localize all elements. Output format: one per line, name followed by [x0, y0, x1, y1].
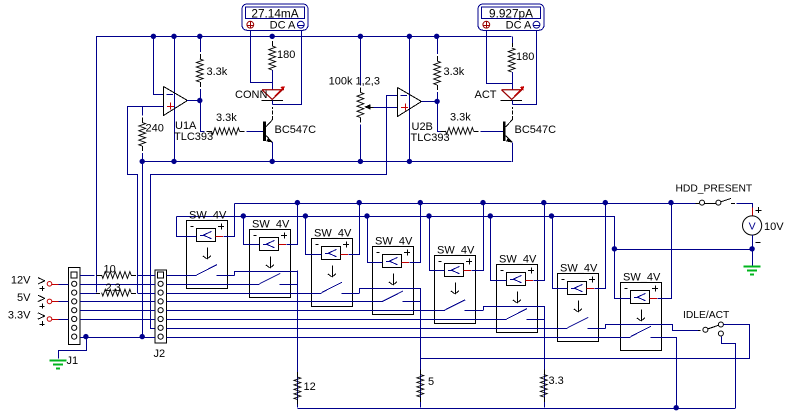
- ground J1: [50, 361, 67, 369]
- wire SW7 minus: [553, 217, 568, 289]
- svg-text:ACT: ACT: [475, 89, 497, 101]
- svg-text:SW_4V: SW_4V: [314, 228, 352, 240]
- wire 3.3ohm feed: [544, 306, 546, 408]
- wire SW5 plus: [472, 204, 484, 271]
- label 240: [146, 123, 164, 135]
- node botrail/link1: [171, 159, 176, 164]
- svg-text:10: 10: [104, 264, 116, 276]
- label BC547C Q1: [275, 124, 317, 136]
- switch IDLE/ACT: [698, 322, 723, 336]
- wire SW8 minus extension: [614, 216, 616, 297]
- wire pot wiper to U2B+: [374, 107, 398, 109]
- svg-text:240: 240: [146, 123, 164, 135]
- wire LED2 cathode to Q2 collector: [512, 100, 514, 104]
- label SW_4V 6: [499, 254, 537, 266]
- wire bus pin8: [166, 337, 630, 339]
- resistor R180 ch2: [508, 43, 515, 90]
- wire source - lead: [752, 235, 754, 265]
- resistor R3.3k base ch2: [437, 128, 503, 135]
- ammeter XMM1: [242, 4, 308, 32]
- switch blade SW6: [507, 309, 528, 319]
- label TLC393 U2B: [411, 132, 450, 144]
- svg-text:SW_4V: SW_4V: [560, 263, 598, 275]
- wire bottom rail: [142, 161, 511, 163]
- wire top supply rail: [96, 36, 512, 38]
- wire Q1 emitter: [272, 142, 274, 161]
- label HDD_PRESENT: [676, 184, 753, 195]
- label 2.3: [106, 282, 121, 294]
- switch blade SW5: [445, 300, 466, 310]
- node SW7 plus on feeder A: [603, 200, 608, 205]
- wire SW3 minus: [306, 217, 322, 255]
- switch module SW1 SW_4V: [187, 221, 228, 289]
- connector J2: [155, 270, 167, 343]
- label SW_4V 3: [314, 228, 352, 240]
- wire SW1 plus stub: [215, 236, 223, 238]
- wire bus pin4: [166, 301, 383, 303]
- wire U1A output: [187, 100, 200, 102]
- label J1: [67, 355, 79, 367]
- switch blade SW4: [383, 291, 404, 301]
- wire SW4 output stub: [402, 301, 420, 303]
- op-amp U1A: [164, 87, 188, 116]
- wire meter2 - lead: [513, 31, 537, 105]
- svg-text:3.3k: 3.3k: [207, 66, 228, 78]
- node rail/U1A- tap: [151, 34, 156, 39]
- svg-text:180: 180: [277, 49, 295, 61]
- LED ACT: [501, 86, 525, 100]
- wire J1 pin4 to J2: [80, 301, 155, 303]
- node U2B output: [434, 99, 439, 104]
- label BC547C Q2: [515, 124, 557, 136]
- wire Q2 emitter: [512, 143, 513, 162]
- wire SW8 plus stub: [649, 298, 657, 300]
- label 3.3k pullup ch2: [444, 66, 465, 78]
- switch HDD_PRESENT: [695, 198, 736, 205]
- wire meter2 + lead: [487, 31, 513, 84]
- wire SW4 plus: [410, 204, 421, 263]
- resistor R3.3k pullup ch2: [434, 36, 441, 101]
- wire U1A noninverting input: [128, 107, 164, 294]
- wire SW5 plus stub: [463, 270, 471, 272]
- svg-text:J1: J1: [67, 355, 79, 367]
- switch module SW6 SW_4V: [497, 265, 538, 333]
- svg-text:IDLE/ACT: IDLE/ACT: [683, 310, 730, 321]
- svg-text:3.3k: 3.3k: [450, 112, 471, 124]
- label 10: [104, 264, 116, 276]
- wire 3.3V to J1: [59, 319, 69, 321]
- wire left supply drop: [96, 36, 98, 292]
- wire output to base resistor ch1: [201, 101, 204, 132]
- label SW_4V 2: [252, 219, 290, 231]
- potentiometer 100k: [357, 36, 374, 161]
- wire rail-to-rail link 2: [409, 36, 411, 161]
- svg-text:BC547C: BC547C: [515, 124, 557, 136]
- node rail/pass2 tap: [407, 34, 412, 39]
- node SW8 output on ground rail: [674, 405, 679, 410]
- label 180 ch2: [516, 51, 534, 63]
- wire SW3-SW4 jog: [360, 289, 421, 311]
- ground source: [744, 267, 761, 275]
- switch blade SW3: [322, 282, 343, 292]
- svg-text:12V: 12V: [11, 274, 31, 286]
- node SW6 plus on feeder A: [541, 200, 546, 205]
- node SW2 minus on feeder B: [241, 213, 246, 218]
- wire IDLE/ACT NC branch: [722, 337, 736, 409]
- op-amp U2B: [398, 88, 422, 117]
- port 5V: [17, 292, 59, 309]
- svg-text:5: 5: [428, 376, 434, 388]
- node rail/R 3.3k tap: [197, 34, 202, 39]
- node botrail/Q1e: [270, 159, 275, 164]
- svg-text:DC A: DC A: [506, 20, 532, 32]
- svg-text:10V: 10V: [764, 221, 784, 233]
- svg-text:3.3k: 3.3k: [444, 66, 465, 78]
- switch blade SW7: [568, 317, 589, 327]
- switch blade SW8: [631, 326, 652, 336]
- node source minus: [749, 246, 754, 251]
- switch blade SW1: [197, 265, 218, 275]
- node SW2 plus on feeder A: [295, 200, 300, 205]
- connector J1: [69, 268, 81, 345]
- svg-text:BC547C: BC547C: [275, 124, 317, 136]
- wire 5ohm feed: [420, 288, 422, 407]
- label 5: [428, 376, 434, 388]
- wire J1 pin8 to J2: [80, 337, 155, 339]
- resistor R3.3k pullup ch1: [196, 36, 203, 100]
- svg-text:3.3V: 3.3V: [8, 310, 31, 322]
- label ACT: [475, 89, 497, 101]
- label TLC393 U1A: [174, 131, 213, 143]
- wire SW8 output stub: [650, 337, 671, 339]
- label SW_4V 4: [375, 236, 413, 248]
- svg-text:SW_4V: SW_4V: [252, 219, 290, 231]
- wire control feeder A: [234, 203, 695, 205]
- node J1 pin8 drop: [140, 334, 145, 339]
- wire 10V return: [614, 249, 752, 251]
- wire J1 pin3 stub: [80, 293, 96, 295]
- wire 12V to J1: [59, 284, 69, 286]
- switch module SW2 SW_4V: [250, 230, 291, 298]
- wire U2B inverting stub: [386, 95, 397, 97]
- wire SW6 output stub: [526, 319, 543, 321]
- switch module SW7 SW_4V: [558, 274, 599, 342]
- wire SW5-SW6 jog: [484, 307, 545, 329]
- label CONN: [235, 89, 267, 101]
- label 12: [304, 381, 316, 393]
- wire LED2 anode link: [512, 72, 514, 90]
- node rail/pass tap: [171, 34, 176, 39]
- wire SW7 plus stub: [586, 288, 594, 290]
- wire bottom ground rail: [297, 408, 735, 410]
- node J1 pin8 ground tap: [83, 334, 88, 339]
- switch module SW5 SW_4V: [435, 256, 476, 324]
- resistor R180 ch1: [269, 36, 276, 90]
- node rail/R 3.3k-2 tap: [434, 34, 439, 39]
- wire control feeder B: [176, 216, 614, 218]
- wire SW1 minus: [177, 217, 197, 237]
- resistor R12: [294, 293, 301, 408]
- wire rail-to-rail link 1: [174, 36, 176, 161]
- svg-text:12: 12: [304, 381, 316, 393]
- svg-text:5V: 5V: [17, 292, 31, 304]
- wire LED1 cathode to Q1 collector: [272, 100, 274, 104]
- label 3.3k base ch1: [216, 112, 237, 124]
- wire SW2 output stub: [279, 284, 297, 286]
- label IDLE/ACT: [683, 310, 730, 321]
- label SW_4V 8: [623, 272, 661, 284]
- wire SW7 output stub: [587, 328, 605, 330]
- port 3.3V: [8, 310, 59, 327]
- wire J1 pin5 to J2: [80, 310, 155, 312]
- svg-text:SW_4V: SW_4V: [375, 236, 413, 248]
- resistor R5: [417, 310, 424, 408]
- node U1A output: [197, 98, 202, 103]
- node SW3 minus on feeder B: [303, 213, 308, 218]
- wire SW6 minus: [491, 217, 507, 281]
- svg-text:27.14mA: 27.14mA: [251, 7, 298, 21]
- wire SW6 plus stub: [525, 280, 533, 282]
- port 12V: [11, 274, 59, 291]
- wire SW1 plus: [224, 204, 235, 237]
- node SW3 plus on feeder A: [357, 200, 362, 205]
- ammeter XMM2: [478, 4, 544, 32]
- node SW8 plus on feeder A: [668, 200, 673, 205]
- resistor R3.3k base ch1: [200, 128, 264, 135]
- wire J1 pin2 to J2: [80, 284, 155, 286]
- svg-text:3.3: 3.3: [549, 375, 564, 387]
- wire rail into R180 ch2: [512, 36, 514, 43]
- wire bus pin6: [166, 319, 506, 321]
- wire bus pin2: [166, 284, 259, 286]
- svg-text:180: 180: [516, 51, 534, 63]
- wire SW8 plus: [658, 204, 672, 299]
- wire meter1 - lead: [273, 31, 302, 105]
- wire SW4 plus stub: [401, 262, 409, 264]
- svg-text:V: V: [749, 221, 756, 233]
- wire 12ohm feed: [297, 271, 299, 408]
- wire SW2 plus stub: [278, 244, 286, 246]
- wire wiper reference drop: [151, 96, 387, 329]
- switch blade SW2: [260, 273, 281, 283]
- node SW7 minus on feeder B: [549, 213, 554, 218]
- wire SW6 plus: [534, 204, 545, 281]
- svg-text:SW_4V: SW_4V: [189, 210, 227, 222]
- svg-text:CONN: CONN: [235, 89, 267, 101]
- node SW5 minus on feeder B: [426, 213, 431, 218]
- node SW4 plus on feeder A: [418, 200, 423, 205]
- wire IDLE/ACT common return: [421, 325, 750, 359]
- svg-text:3.3k: 3.3k: [216, 112, 237, 124]
- wire SW7 jog to IDLE/ACT: [606, 325, 699, 331]
- label 10V: [764, 221, 784, 233]
- svg-text:HDD_PRESENT: HDD_PRESENT: [676, 184, 753, 195]
- resistor R10: [91, 272, 155, 279]
- label SW_4V 5: [437, 245, 475, 257]
- node SW6 minus on feeder B: [488, 213, 493, 218]
- label 100k 1,2,3: [329, 76, 380, 88]
- node SW5 plus on feeder A: [480, 200, 485, 205]
- svg-text:TLC393: TLC393: [174, 131, 213, 143]
- resistor R2.3: [96, 289, 155, 296]
- wire J1 ground stub: [59, 338, 87, 359]
- switch module SW8 SW_4V: [621, 283, 662, 351]
- svg-text:SW_4V: SW_4V: [437, 245, 475, 257]
- wire bus pin1: [166, 275, 196, 277]
- node rail/pot tap: [358, 34, 363, 39]
- wire bus pin3: [166, 293, 321, 295]
- svg-text:SW_4V: SW_4V: [623, 272, 661, 284]
- label U2B: [412, 121, 433, 133]
- wire SW3 plus: [349, 204, 360, 255]
- wire SW8 minus: [615, 217, 631, 299]
- wire SW8 output to ground rail: [662, 338, 677, 409]
- label SW_4V 7: [560, 263, 598, 275]
- switch module SW4 SW_4V: [373, 247, 414, 315]
- wire bus pin5: [166, 310, 445, 312]
- wire SW2 plus: [287, 204, 298, 245]
- node botrail/link2: [407, 159, 412, 164]
- wire LED1 anode link: [272, 70, 274, 90]
- wire SW3 plus stub: [340, 254, 348, 256]
- wire HDD_PRESENT to source: [737, 204, 753, 209]
- wire output to base resistor ch2: [438, 102, 441, 132]
- svg-text:J2: J2: [154, 348, 166, 360]
- wire J1 pin1 to 10 ohm: [80, 275, 91, 277]
- svg-text:9.927pA: 9.927pA: [489, 7, 533, 21]
- label SW_4V 1: [189, 210, 227, 222]
- svg-text:SW_4V: SW_4V: [499, 254, 537, 266]
- wire SW1-SW2 jog: [235, 272, 298, 294]
- wire SW3 output stub: [341, 293, 359, 295]
- label 3.3k pullup ch1: [207, 66, 228, 78]
- wire SW5 minus: [430, 217, 445, 271]
- node rail/R180 tap: [270, 34, 275, 39]
- LED CONN: [262, 86, 285, 100]
- wire R240 node drop: [142, 161, 144, 336]
- node botrail/pot: [358, 159, 363, 164]
- node SW4 minus on feeder B: [364, 213, 369, 218]
- source V1 10V: [743, 207, 762, 243]
- resistor R3.3: [540, 328, 547, 408]
- wire SW7 plus: [595, 204, 606, 289]
- wire SW2 minus: [244, 217, 260, 245]
- label J2: [154, 348, 166, 360]
- wire SW1 output stub: [216, 275, 234, 277]
- wire J1 pin6 to J2: [80, 319, 155, 321]
- svg-text:100k 1,2,3: 100k 1,2,3: [329, 76, 380, 88]
- switch module SW3 SW_4V: [312, 239, 353, 307]
- wire U2B output: [421, 101, 437, 103]
- svg-text:TLC393: TLC393: [411, 132, 450, 144]
- label U1A: [175, 120, 197, 132]
- wire SW5 output stub: [464, 310, 483, 312]
- wire meter1 + lead: [251, 31, 273, 83]
- wire SW4 minus: [368, 217, 383, 263]
- wire bus pin7: [166, 328, 567, 330]
- node botrail/R240: [140, 159, 145, 164]
- label 3.3: [549, 375, 564, 387]
- transistor Q2 BC547C: [503, 107, 513, 143]
- svg-text:2.3: 2.3: [106, 282, 121, 294]
- label 180 ch1: [277, 49, 295, 61]
- transistor Q1 BC547C: [263, 107, 272, 143]
- wire U1A inverting input: [154, 37, 164, 95]
- resistor R240: [139, 106, 146, 161]
- wire source + stub: [752, 208, 754, 216]
- label 3.3k base ch2: [450, 112, 471, 124]
- node 10V return tap: [612, 246, 617, 251]
- wire 5V to J1: [59, 301, 69, 303]
- svg-text:DC A: DC A: [270, 20, 296, 32]
